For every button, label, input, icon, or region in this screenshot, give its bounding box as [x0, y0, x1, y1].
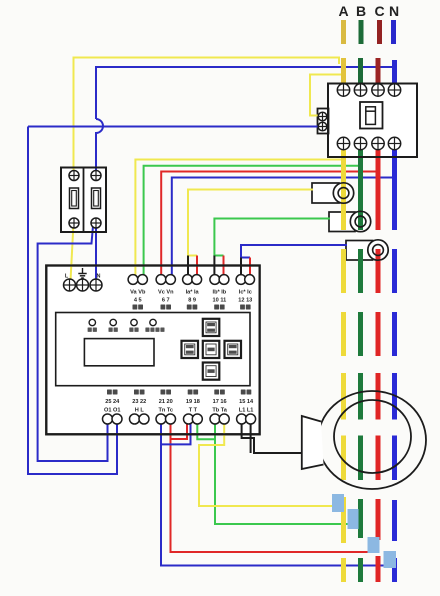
- fuse terminals: [69, 171, 79, 181]
- tap connector on C: [368, 537, 380, 553]
- wire fuse FU2 to relay output O1a: [38, 226, 108, 461]
- phase C line segments: [376, 150, 381, 230]
- wire Vn voltage tap: [172, 178, 395, 276]
- wire CT3 l to Ic terminal: [249, 258, 251, 276]
- svg-text:17 16: 17 16: [213, 399, 227, 405]
- svg-text:12 13: 12 13: [238, 298, 252, 304]
- CT3 body: [346, 241, 373, 261]
- svg-text:Vc Vn: Vc Vn: [158, 290, 174, 296]
- breaker QF body: [328, 84, 417, 158]
- wire CT1 l to Ia terminal: [196, 256, 198, 276]
- phase N line segments: [392, 150, 397, 230]
- breaker switch window: [360, 102, 383, 129]
- CT2 rings: [350, 211, 370, 231]
- wire CT1 k to Ia* terminal: [187, 256, 189, 276]
- wire CT3 secondary lead: [241, 245, 347, 258]
- svg-text:19 18: 19 18: [186, 399, 200, 405]
- wire Ta to A-connector: [199, 424, 340, 506]
- button confirm: [225, 341, 242, 358]
- svg-text:6 7: 6 7: [162, 298, 170, 304]
- phase C bus bar: [377, 20, 382, 44]
- LED indicators: [89, 319, 95, 325]
- wire hop where N feed crosses trip loop: [96, 119, 103, 171]
- ring CT outer: [318, 391, 426, 489]
- tap connector on A: [332, 494, 344, 512]
- fuse FU1 cartridge slot: [70, 188, 79, 209]
- svg-text:15 14: 15 14: [239, 399, 254, 405]
- LCD display: [84, 339, 154, 366]
- ring CT inner: [334, 400, 411, 473]
- earth symbol: [78, 268, 86, 278]
- svg-text:B: B: [356, 3, 366, 19]
- fuse block body: [61, 168, 106, 233]
- breaker QF outline: [328, 84, 417, 158]
- svg-text:Tn Tc: Tn Tc: [158, 408, 173, 414]
- wire L1a to ring CT: [242, 424, 302, 453]
- svg-text:Ic* Ic: Ic* Ic: [239, 290, 252, 296]
- wire Tc to C-connector: [171, 424, 376, 552]
- svg-text:L1 L1: L1 L1: [239, 408, 254, 414]
- svg-text:8 9: 8 9: [188, 298, 196, 304]
- svg-text:Tb Ta: Tb Ta: [212, 408, 227, 414]
- phase N bottom segments: [392, 500, 397, 541]
- button left: [182, 341, 199, 358]
- wire fuse FU2 to N terminal: [95, 223, 97, 281]
- relay device U1 body: [46, 266, 259, 435]
- phase A into breaker: [341, 58, 346, 87]
- LED labels: [88, 328, 92, 332]
- relay bottom terminal row: [103, 414, 113, 424]
- phase A line segments: [341, 150, 346, 230]
- svg-text:Va Vb: Va Vb: [130, 290, 146, 296]
- wire Tn to N-connector: [161, 424, 391, 566]
- wire phase A top feed to fuse FU1: [74, 58, 340, 172]
- wire CT3 k to Ic* terminal: [240, 258, 242, 276]
- svg-text:4 5: 4 5: [134, 298, 142, 304]
- breaker aux terminal box: [318, 109, 329, 134]
- fuse block outline: [61, 168, 106, 233]
- tap connector on B: [348, 509, 359, 529]
- svg-text:10 11: 10 11: [213, 298, 227, 304]
- CT2 body: [329, 212, 355, 232]
- breaker top terminals: [337, 84, 349, 96]
- breaker switch toggle: [366, 107, 376, 125]
- wire Vb voltage tap: [144, 166, 361, 275]
- phase B line segments: [358, 150, 363, 230]
- relay front panel: [56, 313, 250, 386]
- wire L1b join: [250, 424, 252, 453]
- wire CT2 l to Ib terminal: [223, 256, 225, 276]
- fuse FU2 cartridge slot: [92, 188, 101, 209]
- svg-text:Ib* Ib: Ib* Ib: [213, 290, 227, 296]
- wire N top feed from fuse FU2: [96, 67, 394, 119]
- wire CT1 secondary lead: [188, 190, 313, 256]
- relay L earth N terminals: [64, 279, 76, 291]
- svg-text:A: A: [338, 3, 348, 19]
- wire Va voltage tap: [135, 160, 343, 276]
- wire fuse FU1 to L terminal: [71, 223, 74, 281]
- phase N into breaker: [392, 60, 397, 87]
- CT1 body: [312, 183, 339, 203]
- phase N bus bar: [391, 20, 396, 44]
- tap connector on N: [384, 551, 397, 568]
- button up/reset: [203, 319, 220, 336]
- wire trip loop to aux terminal 2: [28, 126, 318, 128]
- phase B into breaker: [358, 58, 363, 87]
- svg-text:H L: H L: [135, 408, 145, 414]
- wire T jumper to Tn: [161, 424, 191, 444]
- wire T jumper to Tb: [197, 424, 215, 439]
- wire phase A tap to aux terminal 1: [310, 75, 342, 116]
- relay top terminal row: [128, 275, 138, 285]
- svg-text:Ia* Ia: Ia* Ia: [186, 290, 200, 296]
- wire CT2 k to Ib* terminal: [213, 256, 215, 276]
- CT1 rings: [333, 183, 353, 203]
- CT3 rings: [368, 240, 388, 260]
- svg-text:T T: T T: [189, 408, 198, 414]
- wire T jumper to Tc: [171, 424, 188, 439]
- wire aux terminal 2 to relay output O1b: [28, 127, 117, 475]
- wire Vc voltage tap: [161, 172, 378, 276]
- phase C into breaker: [376, 58, 381, 87]
- wire Tb to B-connector: [215, 424, 355, 524]
- svg-text:C: C: [374, 3, 384, 19]
- relay bottom terminal labels: [107, 390, 112, 395]
- svg-text:23 22: 23 22: [132, 399, 146, 405]
- aux terminals: [318, 112, 327, 121]
- phase A bus bar: [341, 20, 346, 44]
- svg-text:N: N: [389, 3, 399, 19]
- svg-text:N: N: [97, 274, 101, 280]
- phase B bus bar: [359, 20, 364, 44]
- button down: [203, 363, 220, 380]
- breaker bottom terminals: [337, 137, 349, 149]
- svg-text:25 24: 25 24: [105, 399, 120, 405]
- button set: [203, 341, 220, 358]
- phase B bottom segments: [358, 499, 363, 538]
- relay device outline: [46, 266, 259, 435]
- phase C bottom segments: [376, 499, 381, 540]
- wire CT2 secondary lead: [214, 219, 330, 256]
- phase A bottom segments: [341, 497, 346, 543]
- ring CT horn: [302, 416, 324, 469]
- svg-text:O1 O1: O1 O1: [104, 408, 120, 414]
- svg-text:21 20: 21 20: [159, 399, 173, 405]
